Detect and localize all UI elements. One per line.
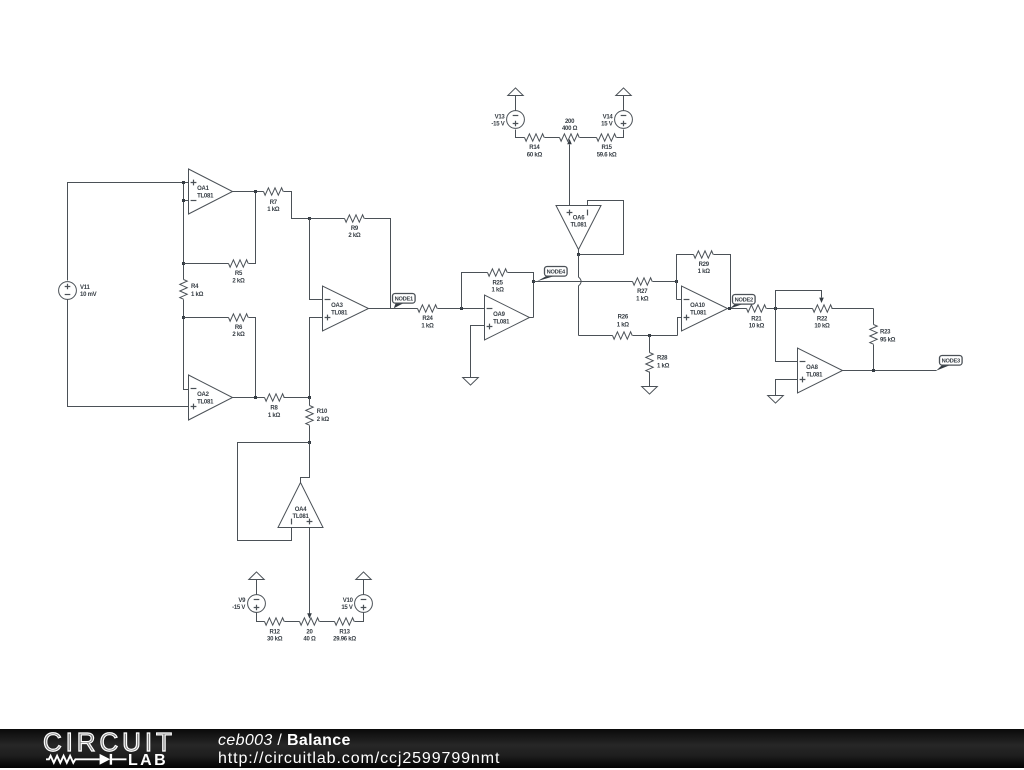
wire OA8 - input [776,309,798,362]
op-amp OA10 [682,286,728,331]
svg-text:V11: V11 [80,285,91,291]
junction R6 tap [182,316,185,319]
op-amp OA1 [189,169,233,214]
wire OA10 + input [678,318,682,336]
svg-text:1 kΩ: 1 kΩ [267,207,280,213]
junction R27/R29/OA10- node [675,280,678,283]
wire OA4 output to node [301,443,310,483]
svg-text:29.96 kΩ: 29.96 kΩ [333,637,356,643]
svg-text:20: 20 [306,629,313,635]
power flag above V14 [616,88,631,111]
wire OA9 + input to ground [471,326,485,378]
svg-text:R5: R5 [235,271,243,277]
svg-text:2 kΩ: 2 kΩ [232,332,245,338]
junction NODE4 node [532,280,535,283]
svg-text:-15 V: -15 V [232,605,245,611]
resistor R15 59.6 kOhm [580,130,624,159]
svg-text:40 Ω: 40 Ω [303,637,316,643]
resistor R28 1 kOhm [646,336,670,387]
svg-text:TL081: TL081 [331,311,348,317]
svg-text:59.6 kΩ: 59.6 kΩ [597,152,617,158]
ground below OA8 [768,396,784,404]
resistor R12 30 kOhm [265,618,300,643]
op-amp OA3 [323,286,369,331]
svg-text:1 kΩ: 1 kΩ [698,269,711,275]
svg-text:OA10: OA10 [690,303,706,309]
resistor R7 1 kOhm [264,188,310,219]
junction OA1 output node [254,190,257,193]
power flag above V9 [249,572,264,595]
op-amp OA4 [278,483,323,528]
wire OA6 output stub [578,250,580,255]
svg-text:R21: R21 [751,316,762,322]
svg-text:V10: V10 [343,598,354,604]
junction OA4 feedback node [308,441,311,444]
junction OA1 - input [182,199,185,202]
svg-text:OA3: OA3 [331,303,344,309]
svg-text:OA2: OA2 [197,392,210,398]
CircuitLab logo resistor and diode glyph [40,751,132,768]
svg-text:R26: R26 [618,314,629,320]
op-amp OA6 [556,206,601,250]
resistor R9 2 kOhm [310,215,391,309]
potentiometer R22 10 kOhm [813,305,874,330]
svg-text:V13: V13 [495,114,506,120]
voltage source V13 -15 V [491,111,524,129]
svg-text:R24: R24 [422,316,433,322]
svg-text:1 kΩ: 1 kΩ [657,364,670,370]
svg-text:1 kΩ: 1 kΩ [492,287,505,293]
svg-text:2 kΩ: 2 kΩ [348,233,361,239]
svg-text:R25: R25 [492,280,503,286]
svg-text:R8: R8 [270,406,278,412]
junction R5 tap [182,262,185,265]
svg-text:NODE4: NODE4 [547,269,566,275]
resistor R21 10 kOhm [747,305,813,330]
svg-text:R9: R9 [351,226,359,232]
svg-text:R28: R28 [657,356,668,362]
resistor R4 1 kOhm [180,280,204,300]
ground below OA9 [463,378,479,386]
svg-text:TL081: TL081 [197,194,214,200]
svg-text:V14: V14 [603,114,614,120]
wire OA2 output [233,397,265,399]
svg-text:1 kΩ: 1 kΩ [617,322,630,328]
voltage source V14 15 V [601,111,632,129]
wire OA10 - input stub [677,299,682,301]
voltage source V10 15 V [341,595,372,613]
wire V9 to R12 [257,613,265,622]
CircuitLab logo CIRCUIT text [43,727,176,758]
wire OA1 output [233,191,264,193]
wire OA6 feedback loop [579,201,624,255]
junction OA2 output node [254,396,257,399]
svg-text:NODE1: NODE1 [395,296,413,302]
svg-text:15 V: 15 V [341,605,353,611]
junction R8/R10 node [308,396,311,399]
svg-text:10 mV: 10 mV [80,292,97,298]
svg-text:TL081: TL081 [570,223,587,229]
svg-text:R22: R22 [817,316,828,322]
footer bar [0,729,1024,768]
svg-text:R14: R14 [529,145,540,151]
svg-text:R7: R7 [270,200,278,206]
svg-text:95 kΩ: 95 kΩ [880,338,896,344]
svg-text:R6: R6 [235,325,243,331]
op-amp OA2 [189,375,233,420]
junction R23/output node [872,369,875,372]
power flag above V10 [356,572,371,595]
svg-text:10 kΩ: 10 kΩ [814,324,830,330]
junction OA1 + input [182,181,185,184]
svg-text:1 kΩ: 1 kΩ [268,413,281,419]
resistor R25 1 kOhm feedback [462,269,534,318]
wire OA9 output stub [530,317,534,319]
node flag NODE3 [936,356,962,371]
wire potentiometer wiper to OA6 + input [567,139,572,206]
node flag NODE4 [537,267,567,282]
op-amp OA8 [798,348,843,393]
svg-text:R23: R23 [880,330,891,336]
svg-text:TL081: TL081 [292,514,309,520]
wire to OA3 - input [310,219,323,300]
svg-text:R12: R12 [270,629,281,635]
svg-text:2 kΩ: 2 kΩ [317,417,330,423]
svg-text:OA4: OA4 [295,507,308,513]
resistor R5 2 kOhm [184,192,256,285]
node flag NODE1 [393,294,416,309]
resistor R29 1 kOhm feedback [677,251,731,309]
wire OA3 output / R24 row [369,308,418,310]
wire OA8 output to NODE3 [843,370,937,372]
svg-text:OA1: OA1 [197,186,210,192]
resistor R13 29.96 kOhm [320,613,364,643]
svg-text:1 kΩ: 1 kΩ [636,296,649,302]
wire V13 to R14 [516,130,525,138]
svg-text:R15: R15 [601,145,612,151]
svg-text:10 kΩ: 10 kΩ [749,324,765,330]
svg-text:R13: R13 [339,629,350,635]
voltage source V11 10 mV [59,282,97,300]
svg-text:NODE3: NODE3 [942,358,960,364]
svg-text:1 kΩ: 1 kΩ [421,323,434,329]
svg-text:TL081: TL081 [690,311,707,317]
junction R26/R28 node [648,334,651,337]
resistor R26 1 kOhm [579,314,678,339]
CircuitLab logo LAB text [128,752,168,770]
potentiometer 200 400 Ohm [560,119,580,141]
wire OA8 + input to ground [776,380,798,396]
junction OA10 output node [728,307,731,310]
svg-text:TL081: TL081 [493,320,510,326]
svg-text:400 Ω: 400 Ω [562,126,578,132]
svg-text:OA6: OA6 [573,215,586,221]
potentiometer 20 40 Ohm [300,618,320,643]
svg-text:R4: R4 [191,284,199,290]
svg-text:OA8: OA8 [806,365,819,371]
svg-text:60 kΩ: 60 kΩ [527,152,543,158]
svg-text:R27: R27 [637,289,648,295]
resistor R24 1 kOhm [418,305,485,330]
svg-text:OA9: OA9 [493,312,506,318]
svg-text:R10: R10 [317,409,328,415]
wire OA4 + input to potentiometer wiper [307,528,312,619]
resistor R8 1 kOhm [265,394,310,419]
wire OA1 - input stub [184,200,189,202]
node flag NODE2 [730,295,755,309]
junction OA6 output node [577,253,580,256]
svg-text:200: 200 [565,119,575,125]
resistor R6 2 kOhm [184,314,256,398]
wire OA10 output [728,308,747,310]
footer url [218,750,500,768]
power flag above V13 [508,88,523,111]
resistor R14 60 kOhm [525,134,560,159]
svg-text:15 V: 15 V [601,121,613,127]
svg-text:NODE2: NODE2 [735,297,753,303]
wire OA4 feedback loop [238,443,310,541]
resistor R23 95 kOhm [870,309,896,371]
svg-text:TL081: TL081 [806,373,823,379]
junction R21/R22 node [774,307,777,310]
svg-text:30 kΩ: 30 kΩ [267,637,283,643]
ground below R28 [642,387,658,395]
wire NODE4 row to R27 [534,281,633,283]
resistor R27 1 kOhm [633,278,677,302]
junction R25 left node [460,307,463,310]
wire OA6 output down with hop over NODE4 wire [579,255,582,336]
wire R22 wiper loop [776,291,824,309]
svg-text:1 kΩ: 1 kΩ [191,292,204,298]
voltage source V9 -15 V [232,595,265,613]
svg-text:V9: V9 [238,598,246,604]
wire left chain vertical (OA1 inputs to R4 to OA2 -) [184,183,189,390]
wire OA3 + input to R8 node [310,318,323,398]
op-amp OA9 [485,295,530,340]
wire V11 bottom loop to OA2 + input [68,300,189,407]
footer title ceb003 / Balance [218,732,351,750]
svg-text:2 kΩ: 2 kΩ [232,278,245,284]
wire V11 top loop to OA1 + input [68,183,189,281]
svg-text:R29: R29 [699,262,710,268]
svg-text:TL081: TL081 [197,400,214,406]
svg-text:-15 V: -15 V [491,121,504,127]
resistor R10 2 kOhm [306,398,330,443]
junction R7/R9/OA3- node [308,217,311,220]
